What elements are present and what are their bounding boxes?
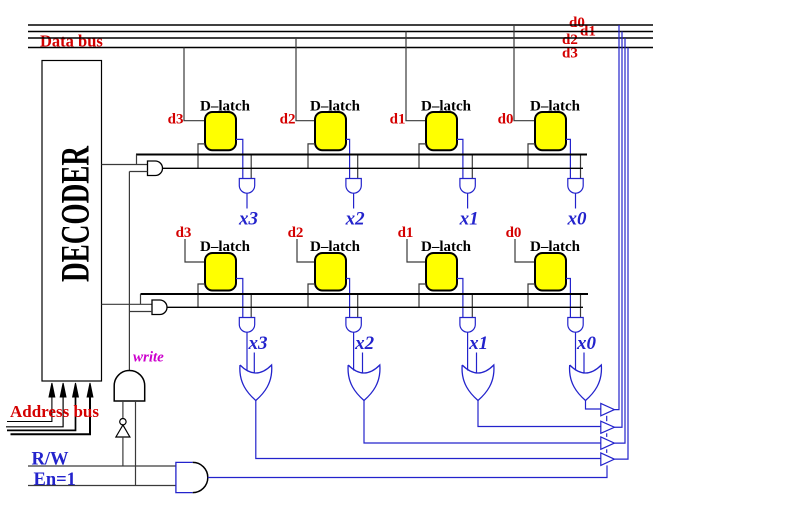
wire R/W line	[28, 465, 176, 467]
D-latch U13 row1 col3	[426, 112, 457, 150]
wire en to write-and	[135, 401, 137, 486]
and gate A3 write	[114, 370, 145, 401]
wire data bus line d3	[28, 47, 653, 49]
wire data stub d3 row2	[185, 239, 205, 262]
svg-text:D–latch: D–latch	[421, 239, 472, 255]
wire G enable step row2 col3	[419, 284, 426, 307]
and gate A4 read	[176, 462, 208, 492]
wire buffer enable row1 col4	[580, 155, 582, 179]
wire buffer output row1 col2	[353, 193, 355, 208]
D-latch U22 row2 col2	[315, 253, 346, 291]
svg-text:d0: d0	[498, 112, 514, 128]
wire data drop d2 row1 col2	[296, 38, 315, 121]
wire address line 0	[7, 397, 52, 422]
wire buffer output row2 col4	[575, 332, 577, 370]
wire inverter to and	[122, 401, 124, 419]
svg-text:D–latch: D–latch	[310, 239, 361, 255]
tri-state buffer row1 col3	[460, 179, 475, 194]
svg-text:d3: d3	[176, 225, 192, 241]
svg-text:Address bus: Address bus	[10, 402, 99, 421]
wire G enable step row1 col1	[198, 144, 205, 168]
svg-text:write: write	[133, 350, 164, 366]
wire data stub d0 row2	[515, 239, 535, 262]
wire Q output row2 col1	[236, 279, 243, 318]
wire buffer enable row1 col1	[250, 155, 252, 179]
wire driver T2 output to bus	[614, 32, 622, 428]
svg-text:D–latch: D–latch	[530, 99, 581, 115]
svg-text:x2: x2	[354, 333, 375, 354]
svg-text:x2: x2	[345, 209, 366, 230]
wire buffer output row1 col3	[467, 193, 469, 208]
wire buffer output row1 col1	[246, 193, 248, 208]
wire select bus row2	[141, 293, 589, 295]
wire buffer enable row2 col1	[250, 294, 252, 318]
wire or input stub x1 col3	[476, 353, 478, 374]
svg-text:d3: d3	[168, 112, 184, 128]
wire Q output row2 col4	[566, 279, 570, 318]
svg-text:x0: x0	[576, 333, 597, 354]
tri-state buffer row2 col3	[460, 318, 475, 333]
and gate A1 row1	[148, 161, 163, 176]
tri-state driver T4	[601, 453, 615, 466]
svg-text:DECODER: DECODER	[55, 146, 98, 282]
wire or output col3	[478, 401, 601, 427]
wire G enable step row2 col4	[528, 284, 535, 307]
svg-text:d0: d0	[506, 225, 522, 241]
svg-text:D–latch: D–latch	[310, 99, 361, 115]
wire data stub d2 row2	[297, 239, 315, 262]
tri-state driver T1	[601, 403, 615, 415]
arrow head address 3	[87, 383, 93, 397]
svg-text:x0: x0	[567, 209, 588, 230]
wire G enable step row2 col1	[198, 284, 205, 307]
wire data bus line d2	[28, 37, 653, 39]
tri-state buffer row1 col2	[346, 179, 361, 194]
D-latch U24 row2 col4	[535, 253, 566, 291]
D-latch U21 row2 col1	[205, 253, 236, 291]
D-latch U11 row1 col1	[205, 112, 236, 150]
wire enable chain segment 2	[606, 433, 608, 437]
svg-text:x3: x3	[238, 209, 258, 230]
inverter N1 bubble	[120, 419, 126, 425]
svg-text:D–latch: D–latch	[200, 99, 251, 115]
and gate A2 row2	[152, 300, 167, 315]
wire Q output row1 col1	[236, 139, 243, 178]
wire buffer output row2 col2	[353, 332, 355, 370]
svg-text:x1: x1	[459, 209, 479, 230]
svg-text:D–latch: D–latch	[530, 239, 581, 255]
wire select bus row1	[136, 154, 587, 156]
wire enable chain segment 1	[606, 416, 608, 421]
wire data stub d1 row2	[407, 239, 426, 262]
or gate O1 col1	[240, 365, 272, 401]
arrow head address 1	[60, 383, 66, 397]
wire buffer enable row2 col2	[357, 294, 359, 318]
svg-text:d2: d2	[288, 225, 304, 241]
wire or input stub x3 col1	[253, 353, 255, 374]
svg-text:d1: d1	[390, 112, 406, 128]
wire G enable step row1 col2	[308, 144, 315, 168]
wire buffer enable row1 col3	[471, 155, 473, 179]
wire inverter input	[122, 437, 124, 466]
wire buffer enable row1 col2	[357, 155, 359, 179]
wire write line vertical	[128, 172, 130, 371]
or gate O2 col2	[348, 365, 380, 401]
wire write word line row1	[163, 167, 584, 169]
wire driver T4 output to bus	[614, 48, 628, 460]
wire buffer enable row2 col4	[580, 294, 582, 318]
svg-text:d1: d1	[398, 225, 414, 241]
wire or output col4	[586, 401, 601, 410]
wire or output col2	[364, 401, 601, 444]
svg-text:D–latch: D–latch	[200, 239, 251, 255]
wire or input stub x0 col4	[583, 353, 585, 374]
wire address line 1	[6, 397, 63, 427]
or gate O3 col3	[462, 365, 494, 401]
wire data drop d3 row1 col1	[184, 48, 205, 121]
wire Q output row1 col4	[566, 139, 570, 178]
D-latch U12 row1 col2	[315, 112, 346, 150]
D-latch U14 row1 col4	[535, 112, 566, 150]
wire buffer enable row2 col3	[471, 294, 473, 318]
tri-state buffer row2 col4	[568, 318, 583, 333]
arrow head address 0	[49, 383, 55, 397]
wire buffer output row2 col3	[467, 332, 469, 370]
or gate O4 col4	[570, 365, 602, 401]
wire write word line row2	[167, 306, 583, 308]
wire address line 3	[11, 397, 91, 434]
wire decoder output row2	[102, 294, 153, 304]
wire data bus line d0	[28, 24, 653, 26]
wire read enable line	[208, 465, 607, 477]
tri-state driver T2	[601, 421, 615, 433]
wire Q output row1 col3	[457, 139, 463, 178]
wire or output col1	[256, 401, 601, 459]
wire G enable step row1 col3	[419, 144, 426, 168]
wire Q output row2 col2	[346, 279, 350, 318]
wire G enable step row1 col4	[528, 144, 535, 168]
wire G enable step row2 col2	[308, 284, 315, 307]
tri-state driver T3	[601, 437, 615, 449]
wire decoder output row1	[102, 155, 148, 165]
wire data drop d0 row1 col4	[514, 25, 535, 121]
wire driver T3 output to bus	[614, 38, 625, 443]
svg-text:x1: x1	[468, 333, 488, 354]
wire or input stub x2 col2	[362, 353, 364, 374]
wire data bus line d1	[28, 31, 653, 33]
wire enable chain segment 3	[606, 449, 608, 453]
tri-state buffer row2 col1	[239, 318, 254, 333]
wire write tap row1	[129, 171, 147, 173]
svg-text:D–latch: D–latch	[421, 99, 472, 115]
wire buffer output row2 col1	[246, 332, 248, 370]
tri-state buffer row2 col2	[346, 318, 361, 333]
svg-text:x3: x3	[248, 333, 268, 354]
wire Q output row2 col3	[457, 279, 463, 318]
wire Q output row1 col2	[346, 139, 350, 178]
wire driver T1 output to bus	[614, 25, 619, 410]
tri-state buffer row1 col1	[239, 179, 254, 194]
svg-text:d2: d2	[280, 112, 296, 128]
tri-state buffer row1 col4	[568, 179, 583, 194]
wire buffer output row1 col4	[575, 193, 577, 208]
wire En line	[28, 485, 176, 487]
D-latch U23 row2 col3	[426, 253, 457, 291]
inverter N1 triangle	[116, 425, 130, 437]
wire write tap row2	[129, 311, 152, 313]
arrow head address 2	[73, 383, 79, 397]
svg-text:En=1: En=1	[34, 470, 76, 490]
decoder box	[42, 61, 102, 382]
wire address line 2	[7, 397, 76, 430]
wire data drop d1 row1 col3	[406, 32, 426, 121]
